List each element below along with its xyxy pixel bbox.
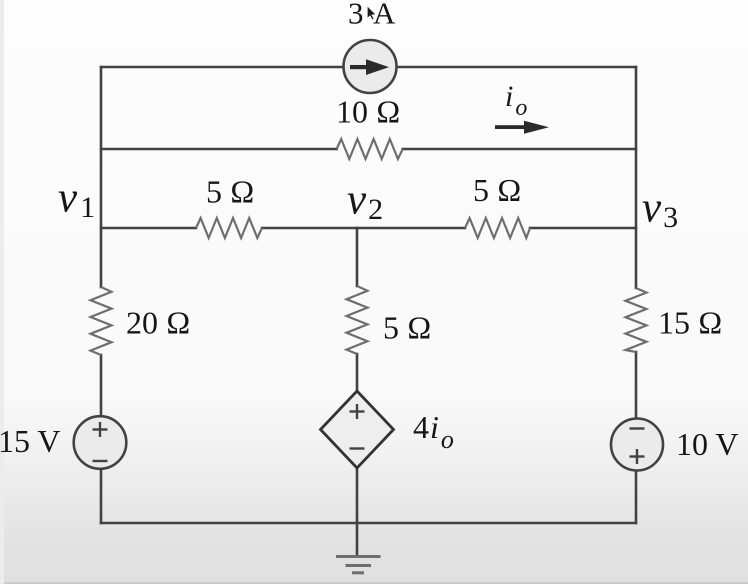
resistor 5ohm right horizontal (465, 218, 530, 238)
plus sign 15V (93, 422, 108, 437)
dependent source diamond 4io (321, 391, 394, 468)
svg-text:5 Ω: 5 Ω (473, 172, 522, 208)
svg-text:10 V: 10 V (676, 426, 739, 462)
svg-text:5 Ω: 5 Ω (206, 174, 255, 210)
mouse cursor (367, 6, 376, 20)
svg-text:15 V: 15 V (0, 423, 61, 459)
plus sign diamond (350, 404, 365, 419)
resistor R 10ohm horizontal (337, 139, 403, 159)
ground (336, 523, 381, 573)
current source arrow (350, 59, 389, 75)
wire middle branch (356, 228, 359, 523)
minus sign diamond (350, 447, 365, 449)
voltage source 15V circle (74, 416, 127, 469)
resistor 20ohm vertical left (91, 287, 112, 355)
resistor 15ohm vertical right (626, 288, 647, 352)
voltage source 10V circle (611, 419, 663, 471)
wire second rail (10 ohm row) (101, 148, 636, 151)
wire top rail (101, 66, 636, 69)
current source 3A circle (344, 40, 397, 93)
wire node row v1-v2-v3 (101, 227, 636, 230)
svg-text:5 Ω: 5 Ω (383, 310, 432, 346)
wire bottom rail (101, 522, 636, 525)
wire right rail (635, 67, 638, 523)
wire left rail (100, 67, 103, 523)
plus sign 10V (630, 449, 645, 464)
resistor 5ohm left horizontal (196, 218, 262, 238)
svg-text:10 Ω: 10 Ω (336, 94, 401, 130)
svg-text:20 Ω: 20 Ω (126, 305, 191, 341)
svg-text:15 Ω: 15 Ω (658, 305, 723, 341)
io arrow (495, 121, 549, 134)
minus sign 10V (630, 427, 645, 429)
minus sign 15V (93, 460, 108, 462)
resistor 5ohm vertical middle (347, 286, 368, 354)
